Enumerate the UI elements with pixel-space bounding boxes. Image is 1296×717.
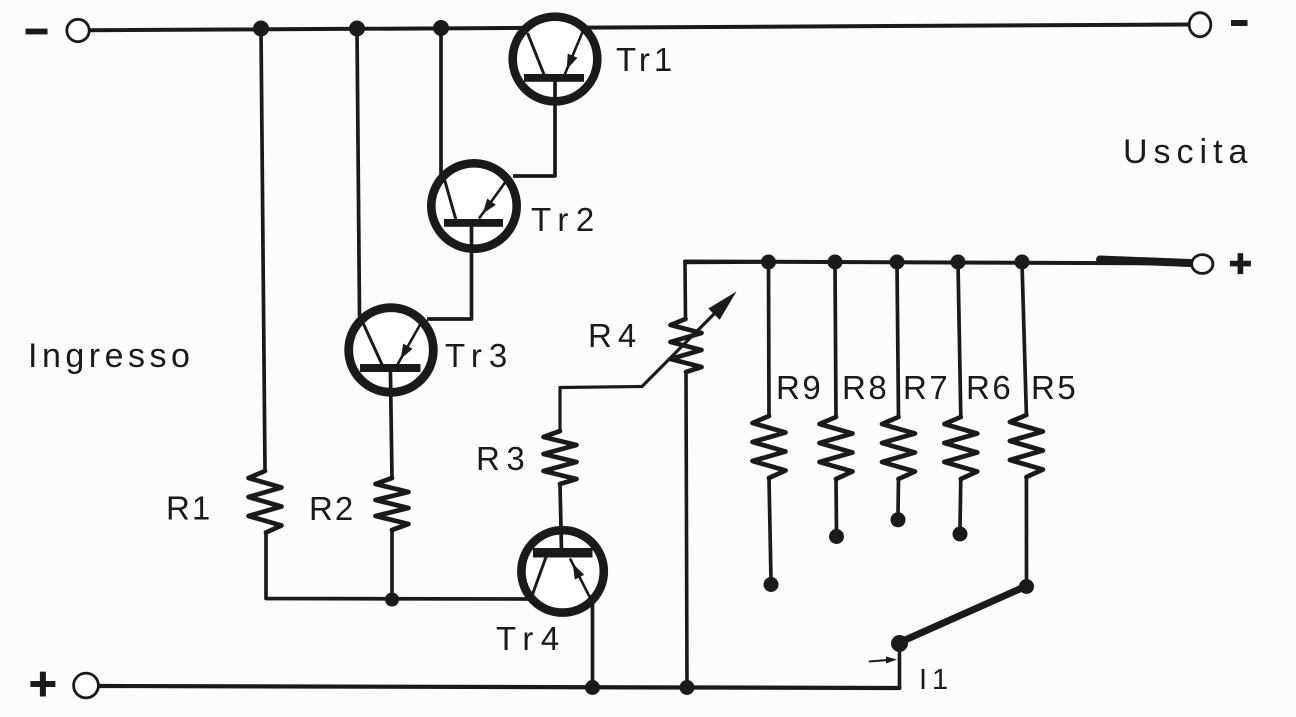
potentiometer R4 wiper arrowhead xyxy=(708,292,736,320)
minus sign output xyxy=(1231,20,1248,26)
wire top negative rail xyxy=(90,25,1189,31)
svg-text:Tr2: Tr2 xyxy=(531,201,602,238)
junction dot top rail Tr3 xyxy=(349,21,365,37)
wire R1 bottom to Tr4 emitter horizontal xyxy=(266,533,533,600)
wire thick retrace on plus rail xyxy=(1100,260,1190,264)
junction dot top rail R1 xyxy=(253,21,269,37)
terminal output plus xyxy=(1192,255,1213,274)
resistor R7 xyxy=(882,417,915,479)
switch I1 pivot junction on R5 xyxy=(1019,579,1034,594)
svg-text:Tr3: Tr3 xyxy=(445,337,514,374)
junction dot plus rail R8 xyxy=(828,255,843,270)
wire R4 top lead to plus rail xyxy=(685,262,767,319)
junction dot R4 on bottom rail xyxy=(680,680,695,695)
wire R2 bottom lead xyxy=(390,530,394,599)
wire R6 top lead xyxy=(958,263,961,417)
wire output plus rail xyxy=(685,262,1192,264)
terminal dot R7 end xyxy=(891,512,906,527)
junction dot plus rail R7 xyxy=(890,255,905,270)
transistor Tr4 xyxy=(521,530,603,612)
wire R8 top lead xyxy=(835,263,836,417)
minus sign input xyxy=(26,29,48,35)
terminal input plus xyxy=(74,673,99,698)
wire switch common riser xyxy=(898,646,902,688)
wire R4 bottom lead to bottom rail xyxy=(686,372,687,688)
svg-text:R5: R5 xyxy=(1031,369,1078,406)
switch I1 lower contact blob xyxy=(891,635,908,652)
wire R6 bottom lead xyxy=(958,479,962,528)
terminal dot R6 end xyxy=(953,527,968,542)
resistor R6 xyxy=(944,417,977,479)
transistor Tr2 xyxy=(431,163,516,248)
wire R5 top lead xyxy=(1022,263,1026,415)
terminal dot R8 end xyxy=(829,529,844,544)
wire R3 bottom to Tr4 base xyxy=(560,484,562,551)
junction dot Tr4 collector on bottom rail xyxy=(585,680,600,695)
resistor R5 xyxy=(1010,415,1043,477)
svg-text:R3: R3 xyxy=(476,440,531,477)
transistor Tr3 xyxy=(349,308,434,393)
wire R9 top lead xyxy=(767,263,771,416)
wire Tr2 collector from rail xyxy=(439,29,443,175)
svg-text:Tr4: Tr4 xyxy=(496,620,567,657)
wire R5 bottom lead to switch pivot xyxy=(1025,477,1029,582)
svg-text:Uscita: Uscita xyxy=(1123,133,1253,171)
wire Tr1 base to Tr2 emitter xyxy=(513,80,555,176)
resistor R9 xyxy=(753,416,786,478)
junction dot plus rail R9 xyxy=(761,255,776,270)
plus sign input xyxy=(30,672,55,697)
wire Tr4 collector down to bottom rail xyxy=(591,600,595,688)
terminal output minus xyxy=(1189,13,1211,37)
junction dot plus rail R6 xyxy=(951,255,966,270)
wire R1 top lead from rail xyxy=(261,29,265,472)
svg-text:Ingresso: Ingresso xyxy=(28,337,194,375)
wire R7 top lead xyxy=(897,263,899,417)
wire R8 bottom lead xyxy=(834,479,838,531)
svg-text:R7: R7 xyxy=(903,369,950,406)
svg-text:R6: R6 xyxy=(966,369,1013,406)
wire Tr3 collector from rail xyxy=(357,29,360,316)
junction dot plus rail R5 xyxy=(1015,255,1030,270)
resistor R8 xyxy=(820,417,853,479)
wire R7 bottom lead xyxy=(896,479,900,514)
svg-text:R8: R8 xyxy=(842,369,889,406)
resistor R2 xyxy=(376,478,409,530)
transistor Tr1 xyxy=(513,17,598,102)
wire Tr3 base to R2 xyxy=(390,370,392,478)
wire Tr2 base to Tr3 emitter xyxy=(427,225,472,319)
resistor R1 xyxy=(249,471,282,533)
wire R3 top to R4 wiper horizontal xyxy=(560,387,642,432)
resistor R3 xyxy=(544,431,577,484)
terminal dot R9 end xyxy=(764,577,779,592)
svg-text:R4: R4 xyxy=(588,317,642,354)
svg-text:Tr1: Tr1 xyxy=(616,41,676,78)
potentiometer R4 body xyxy=(671,319,702,372)
svg-text:R2: R2 xyxy=(309,490,355,527)
potentiometer R4 wiper arrow line xyxy=(642,314,714,387)
terminal input minus xyxy=(67,19,89,41)
junction dot top rail Tr2 xyxy=(433,20,449,36)
junction dot R2 bottom node xyxy=(385,593,399,607)
switch I1 lever xyxy=(901,588,1024,643)
wire R9 bottom lead xyxy=(769,478,771,580)
svg-text:I1: I1 xyxy=(919,664,953,696)
wire bottom positive rail xyxy=(99,686,900,688)
svg-text:R1: R1 xyxy=(166,490,212,527)
switch I1 wiper arrow xyxy=(869,657,897,664)
svg-text:R9: R9 xyxy=(776,369,823,406)
plus sign output xyxy=(1230,253,1251,274)
